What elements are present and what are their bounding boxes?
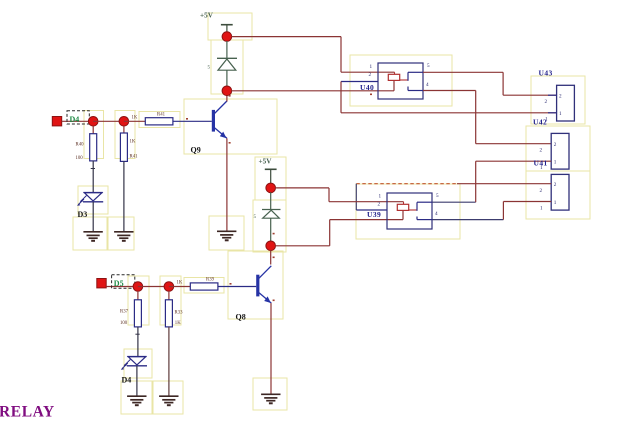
node F junction dot [133, 282, 143, 292]
wire relay U40 pin 2 to connector U43 pin 1 [341, 82, 557, 113]
svg-text:1: 1 [559, 111, 562, 117]
svg-text:1: 1 [554, 200, 557, 206]
wire LED D4 to ground [136, 366, 138, 396]
ground under Q8 [261, 394, 280, 403]
node E junction dot [266, 241, 276, 251]
svg-text:1K: 1K [130, 140, 136, 145]
wire Q9 collector to node C [226, 91, 228, 102]
svg-text:U43: U43 [539, 68, 553, 77]
node B junction dot [119, 117, 129, 127]
svg-text:2: 2 [554, 182, 557, 188]
svg-text:R33: R33 [175, 311, 184, 316]
wire relay U39 pin 5 to connector U42 pin 1 [432, 161, 551, 202]
transistor Q8 [236, 266, 272, 322]
wire node D to relay U39 pin 1 [275, 188, 403, 202]
power +5V (lower) [259, 158, 277, 184]
svg-text:D4: D4 [70, 115, 80, 124]
LED D3 [77, 193, 103, 220]
wire resistor R41 to Q9 base [173, 120, 212, 122]
wire node F to node G [138, 286, 169, 288]
svg-text:2: 2 [554, 142, 557, 148]
resistor R42 (vertical) [120, 133, 138, 161]
svg-text:R39: R39 [206, 278, 215, 283]
svg-text:R41: R41 [157, 112, 166, 117]
wire node A to node B [93, 120, 124, 122]
svg-text:Q8: Q8 [236, 313, 246, 322]
wire node C1 to relay U40 pin 1 [232, 37, 395, 73]
svg-text:1: 1 [370, 64, 373, 70]
wire diode D5b to node E [270, 218, 272, 242]
wire (dashed) relay U39 pin 2 to connector U41 pin 2 [356, 184, 551, 210]
node C junction dot [222, 86, 232, 96]
svg-text:2: 2 [559, 94, 562, 100]
ground under R33 [159, 396, 178, 405]
node G junction dot [164, 282, 174, 292]
svg-text:100: 100 [120, 321, 128, 326]
diode D5b (flyback) [254, 210, 281, 221]
relay U40 [341, 63, 430, 99]
connector U43 [539, 68, 575, 122]
diode D5a (flyback) [208, 58, 238, 70]
net label D5 (dashed box) [112, 275, 135, 289]
transistor Q9 [191, 101, 227, 155]
port P2 [97, 279, 106, 288]
resistor R41 (horizontal) [132, 112, 173, 125]
svg-text:U40: U40 [360, 83, 374, 92]
yellow selection boxes [73, 13, 590, 414]
svg-text:1: 1 [540, 206, 543, 212]
ground under D4 [127, 396, 146, 405]
wire node A to resistor R40 [92, 126, 94, 134]
wire relay U40 pin 5 to connector U43 pin 2 [423, 72, 557, 95]
power +5V (top) [200, 12, 233, 33]
wire relay U40 pin 4 to connector U42 pin 2 [423, 91, 551, 144]
connector U42 [533, 118, 569, 172]
wire node E to relay U39 coil [275, 210, 403, 245]
sheet title RELAY [0, 404, 55, 421]
resistor R37 (vertical) [120, 300, 141, 327]
wire node E to Q8 collector [270, 250, 272, 264]
wire Q8 emitter to ground [270, 303, 272, 394]
svg-text:5: 5 [254, 215, 257, 220]
wire resistor R37 to LED D4 [135, 327, 139, 357]
node D junction dot [266, 183, 276, 193]
wire port P2 to node F [106, 286, 138, 288]
svg-text:4: 4 [426, 82, 429, 88]
svg-text:1K: 1K [175, 321, 181, 326]
resistor R33 (vertical) [165, 300, 183, 327]
wire Q9 emitter to ground [226, 138, 228, 231]
svg-text:RELAY: RELAY [0, 404, 55, 421]
svg-text:1: 1 [554, 160, 557, 166]
svg-text:+5V: +5V [200, 12, 214, 20]
wire resistor R39 to Q8 base [218, 286, 256, 288]
svg-text:R41: R41 [130, 154, 139, 159]
svg-text:U42: U42 [533, 118, 547, 127]
wire LED D3 to ground [92, 202, 94, 232]
wire node G to resistor R39 [169, 286, 190, 288]
wire diode D5a to node C [226, 70, 228, 87]
svg-text:D3: D3 [78, 210, 88, 219]
relay U39 [356, 193, 439, 229]
svg-text:4: 4 [435, 211, 438, 217]
svg-text:2: 2 [540, 188, 543, 194]
svg-text:U41: U41 [534, 158, 548, 167]
LED D4 [121, 357, 147, 385]
svg-text:D4: D4 [122, 376, 132, 385]
wire port P1 to node A [62, 120, 93, 122]
svg-text:1K: 1K [177, 281, 183, 286]
resistor R39 (horizontal) [177, 278, 218, 291]
connector U41 [540, 174, 570, 211]
svg-text:100: 100 [76, 156, 84, 161]
wire node D to diode D5b [270, 192, 272, 209]
wire resistor R33 to ground [168, 327, 170, 396]
wire node B to resistor R41 [124, 120, 145, 122]
svg-text:1: 1 [379, 193, 382, 199]
svg-text:U39: U39 [367, 210, 381, 219]
port P1 [52, 117, 61, 126]
wire node C to relay U40 coil [232, 80, 395, 90]
designator U41 (drawn over wire) [534, 158, 548, 167]
wire node G to resistor R33 [168, 291, 170, 300]
wire resistor R40 to LED D3 [91, 161, 95, 193]
svg-text:1K: 1K [132, 116, 138, 121]
svg-text:2: 2 [369, 72, 372, 78]
node A junction dot [88, 117, 98, 127]
wire resistor R42 to ground [123, 161, 125, 231]
svg-text:+5V: +5V [259, 158, 273, 166]
ground under Q9 [217, 231, 236, 240]
svg-text:R40: R40 [76, 143, 85, 148]
wire junction to diode D5a [226, 41, 228, 58]
ground under D3 [83, 232, 102, 241]
tiny pin number marks [186, 94, 372, 302]
svg-text:R37: R37 [120, 310, 129, 315]
svg-text:2: 2 [545, 99, 548, 105]
wire node F to resistor R37 [137, 291, 139, 300]
svg-text:D5: D5 [114, 279, 124, 288]
svg-text:5: 5 [436, 193, 439, 199]
resistor R40 (vertical) [76, 134, 97, 161]
wire relay U39 pin 4 to connector U41 pin 1 [432, 202, 551, 220]
svg-text:5: 5 [427, 63, 430, 69]
wire node B to resistor R42 [123, 126, 125, 133]
net label D4 (dashed box) [67, 111, 89, 124]
svg-text:2: 2 [378, 202, 381, 208]
svg-text:2: 2 [540, 148, 543, 154]
svg-text:5: 5 [208, 66, 211, 71]
svg-text:Q9: Q9 [191, 146, 201, 155]
node C1 junction dot (+5V rail) [222, 32, 232, 42]
ground under R42 [114, 232, 133, 241]
